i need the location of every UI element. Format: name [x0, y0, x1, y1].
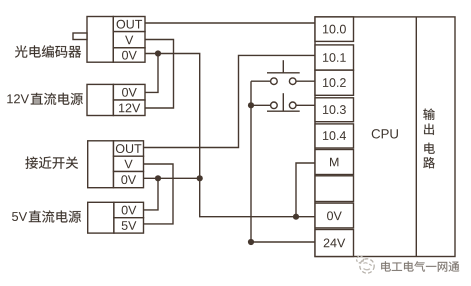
wire: proximity V to 5V supply 5V terminal: [144, 164, 174, 224]
wire: proximity 0V to 0V bus: [144, 177, 200, 179]
encoder terminal OUT: [113, 17, 145, 32]
5V supply terminal 5V: [114, 218, 144, 233]
CPU terminal M: [315, 150, 354, 175]
encoder terminal 0V: [113, 48, 145, 62]
watermark text 电工电气一网通: [381, 261, 459, 271]
CPU terminal 0V: [315, 203, 354, 228]
CPU label: [372, 129, 398, 138]
CPU terminal I0.1: [315, 45, 354, 70]
proximity terminal OUT: [114, 141, 144, 156]
wire: encoder V to 12V supply 12V terminal: [145, 40, 174, 109]
node: junction encoder 0V / 12V supply 0V: [155, 50, 161, 56]
wire: CPU M to 0V bus: [296, 163, 315, 217]
12V DC power supply G1 body: [87, 84, 113, 115]
12V supply terminal 12V: [113, 100, 145, 116]
node: rail corner at 24V wire: [248, 239, 254, 245]
proximity terminal 0V: [114, 172, 144, 188]
watermark logo icon: [357, 256, 375, 273]
5V DC power supply G2 body: [88, 202, 114, 233]
node: junction M wire / 0V bus: [293, 214, 299, 220]
CPU terminal I0.4: [315, 124, 354, 148]
push button SB2 (to CPU 10.3): [251, 93, 315, 111]
CPU / output-circuit divider line: [415, 17, 417, 257]
node: junction rail / push-button SB2 branch: [248, 102, 254, 108]
CPU terminal 24V: [315, 230, 354, 257]
wire: 5V supply 0V branch: [144, 178, 159, 210]
photoelectric encoder B1 body: [73, 17, 113, 63]
12V supply label 12V直流电源: [7, 93, 83, 105]
wire: 12V supply 0V up to encoder 0V: [145, 54, 158, 93]
output circuit label 输出电路: [423, 108, 435, 168]
push button SB1 (to CPU 10.2): [251, 60, 315, 84]
encoder terminal V: [113, 32, 145, 48]
wire: proximity OUT to CPU 10.1: [144, 55, 316, 147]
node: junction proximity 0V / 5V supply 0V: [155, 175, 161, 181]
wire: push-button supply rail down to CPU 24V: [251, 81, 315, 242]
proximity switch label 接近开关: [25, 157, 78, 169]
wire: 0V bus (encoder 0V down to CPU 0V): [145, 54, 315, 217]
CPU module U1 outer box: [315, 17, 455, 257]
5V supply label 5V直流电源: [12, 210, 81, 222]
proximity terminal V: [114, 156, 144, 171]
12V supply terminal 0V: [113, 84, 145, 100]
CPU terminal I0.0: [315, 17, 354, 42]
encoder label 光电编码器: [15, 45, 81, 57]
CPU terminal I0.2: [315, 70, 354, 95]
proximity switch B2 body: [88, 141, 114, 188]
CPU spare terminal (blank): [315, 176, 354, 202]
CPU terminal I0.3: [315, 98, 354, 122]
5V supply terminal 0V: [114, 202, 144, 217]
wire: encoder OUT to CPU 10.0: [145, 22, 315, 24]
node: junction proximity 0V / 0V bus: [197, 175, 203, 181]
